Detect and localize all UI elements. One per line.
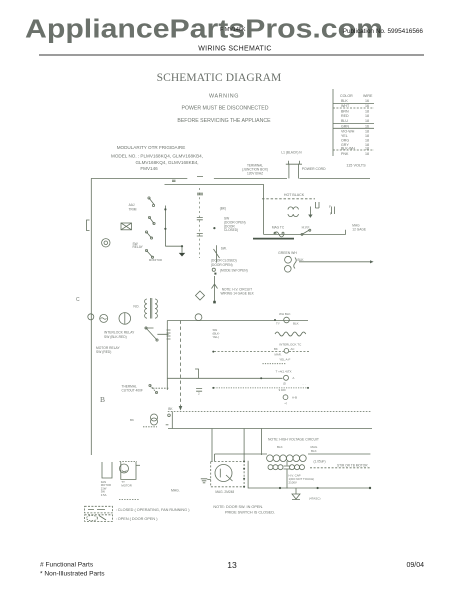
svg-text:POWER MUST BE DISCONNECTED: POWER MUST BE DISCONNECTED: [182, 106, 269, 112]
svg-text:YEL: YEL: [341, 134, 348, 138]
svg-text:WIRING SCHEMATIC: WIRING SCHEMATIC: [198, 46, 272, 53]
svg-text:H.V.F: H.V.F: [302, 226, 310, 230]
svg-text:18: 18: [365, 134, 369, 138]
svg-text:120V 60HZ: 120V 60HZ: [247, 172, 263, 176]
svg-text:(D: (D: [283, 381, 286, 385]
svg-text:3.5A: 3.5A: [101, 493, 107, 497]
svg-text:WH BLK: WH BLK: [279, 312, 291, 316]
svg-text:ORG: ORG: [341, 139, 349, 143]
svg-text:RED: RED: [341, 114, 349, 118]
svg-text:(DOOR OPEN): (DOOR OPEN): [211, 263, 233, 267]
svg-text:MOTOR: MOTOR: [121, 483, 131, 487]
svg-text:VIO-WH: VIO-WH: [341, 130, 355, 134]
svg-text:16: 16: [365, 104, 369, 108]
svg-text:F: F: [329, 205, 331, 209]
svg-text:BLK: BLK: [298, 258, 305, 262]
svg-text:MAG.: MAG.: [171, 489, 180, 493]
svg-text:(DOOR CLOSED): (DOOR CLOSED): [211, 259, 237, 263]
svg-text:INTERLOCK RELAY: INTERLOCK RELAY: [104, 331, 135, 335]
svg-text:18: 18: [365, 114, 369, 118]
svg-text:(BK): (BK): [220, 207, 226, 211]
svg-text:09/04: 09/04: [406, 562, 424, 569]
svg-text:MAR.: MAR.: [275, 352, 282, 356]
svg-text:YEL A-F: YEL A-F: [279, 357, 290, 361]
svg-text:MAG. 2M248: MAG. 2M248: [215, 490, 234, 494]
svg-text:18: 18: [365, 139, 369, 143]
svg-text:SW (BLK-RED): SW (BLK-RED): [104, 335, 127, 339]
svg-text:SW (RED): SW (RED): [96, 350, 111, 354]
svg-text:POWER CORD: POWER CORD: [302, 167, 326, 171]
svg-text:RELAY: RELAY: [133, 245, 144, 249]
svg-text:BLK: BLK: [311, 449, 317, 453]
svg-text:Publication No. 5995416566: Publication No. 5995416566: [343, 28, 424, 35]
svg-text:18: 18: [365, 130, 369, 134]
svg-text:GREEN WH: GREEN WH: [278, 251, 297, 255]
svg-text:12 GAGE: 12 GAGE: [352, 227, 366, 231]
svg-text:BK: BK: [168, 407, 173, 411]
svg-text:PNK: PNK: [341, 152, 349, 156]
svg-text:16: 16: [365, 124, 369, 128]
svg-text:T +4(1.4)TX: T +4(1.4)TX: [276, 370, 292, 374]
svg-text:+(: +(: [284, 401, 287, 405]
svg-text:B: B: [100, 395, 105, 404]
svg-text:WIRING 14 GAGE BLK: WIRING 14 GAGE BLK: [221, 292, 255, 296]
svg-text:COLOR: COLOR: [340, 94, 353, 98]
svg-text:BLK: BLK: [293, 322, 299, 326]
svg-text:SW.: SW.: [221, 247, 227, 251]
svg-text:HOT BLACK: HOT BLACK: [284, 193, 305, 197]
svg-text:FMV146: FMV146: [140, 166, 158, 171]
svg-text:NO.: NO.: [133, 305, 139, 309]
svg-text:TRIM: TRIM: [129, 208, 137, 212]
svg-text:BRN: BRN: [341, 110, 349, 114]
svg-text:BK: BK: [130, 418, 134, 422]
svg-text:: CLOSED ( OPERATING, FAN RUN: : CLOSED ( OPERATING, FAN RUNNING ): [116, 508, 191, 512]
svg-text:WIRE: WIRE: [363, 94, 373, 98]
svg-text:BEFORE SERVICING THE APPLIAN: BEFORE SERVICING THE APPLIANCE: [177, 118, 271, 124]
svg-text:TY: TY: [276, 322, 280, 326]
svg-text:2100V: 2100V: [289, 481, 297, 485]
svg-text:BLU: BLU: [341, 119, 348, 123]
svg-text:* Non-Illustrated Parts: * Non-Illustrated Parts: [40, 571, 105, 578]
svg-text:: OPEN ( DOOR OPEN ): : OPEN ( DOOR OPEN ): [116, 517, 159, 521]
svg-text:NOTE: HIGH VOLTAGE CIRCUIT: NOTE: HIGH VOLTAGE CIRCUIT: [268, 438, 319, 442]
svg-text:BLK: BLK: [277, 445, 283, 449]
svg-text:18: 18: [365, 110, 369, 114]
svg-text:STIR OR TB MOTOR: STIR OR TB MOTOR: [337, 463, 368, 467]
svg-text:A: A: [292, 376, 294, 380]
svg-text:13: 13: [227, 560, 237, 570]
svg-text:GRN: GRN: [341, 124, 349, 128]
svg-text:9 400: 9 400: [279, 388, 286, 392]
svg-text:F MV146K: F MV146K: [220, 27, 246, 33]
svg-text:(MODE SW OPEN): (MODE SW OPEN): [220, 269, 248, 273]
svg-text:WHT: WHT: [341, 104, 350, 108]
svg-text:C: C: [76, 297, 80, 303]
svg-text:. . .: . . .: [302, 382, 306, 386]
svg-text:AppliancePartsPros.com: AppliancePartsPros.com: [25, 16, 383, 44]
svg-text:BK: BK: [274, 347, 278, 351]
svg-text:MONITOR: MONITOR: [149, 258, 162, 262]
svg-text:BLK-WH: BLK-WH: [341, 147, 355, 151]
svg-text:AC: AC: [291, 347, 295, 351]
svg-text:GLMV168KQ4, GLMV168KB4,: GLMV168KQ4, GLMV168KB4,: [135, 160, 198, 165]
svg-text:18: 18: [365, 147, 369, 151]
svg-text:WARNING: WARNING: [209, 94, 239, 100]
svg-text:(1.05uF): (1.05uF): [313, 460, 325, 464]
svg-text:A-B: A-B: [292, 396, 297, 400]
svg-text:(4TASC): (4TASC): [309, 497, 320, 501]
svg-text:# Functional Parts: # Functional Parts: [40, 562, 94, 569]
svg-text:YEL): YEL): [213, 335, 219, 339]
svg-text:MAG TC: MAG TC: [272, 225, 285, 229]
svg-text:115 VOLTS: 115 VOLTS: [346, 164, 366, 168]
svg-text:18: 18: [365, 119, 369, 123]
svg-text:CUTOUT 400F: CUTOUT 400F: [122, 388, 143, 392]
svg-text:NOTE: DOOR SW. IN OPEN.: NOTE: DOOR SW. IN OPEN.: [213, 505, 263, 509]
svg-text:2: 2: [198, 392, 200, 396]
svg-text:16: 16: [365, 99, 369, 103]
svg-text:L1 (BLACK) N: L1 (BLACK) N: [281, 151, 302, 155]
svg-text:INTERLOCK TC: INTERLOCK TC: [279, 342, 302, 346]
svg-text:18: 18: [365, 152, 369, 156]
svg-text:SCHEMATIC DIAGRAM: SCHEMATIC DIAGRAM: [157, 72, 282, 84]
svg-text:AAJ: AAJ: [129, 203, 135, 207]
svg-text:PRIDE SWITCH IS CLOSED.: PRIDE SWITCH IS CLOSED.: [225, 511, 275, 515]
svg-text:CLOSED): CLOSED): [224, 228, 238, 232]
svg-text:BLK: BLK: [341, 99, 348, 103]
svg-text:MODULARITY OTR FRIGIDAIRE: MODULARITY OTR FRIGIDAIRE: [117, 145, 186, 150]
svg-text:MODEL NO. : PLMV168KQ4, GLMV16: MODEL NO. : PLMV168KQ4, GLMV168KB4,: [111, 154, 203, 159]
